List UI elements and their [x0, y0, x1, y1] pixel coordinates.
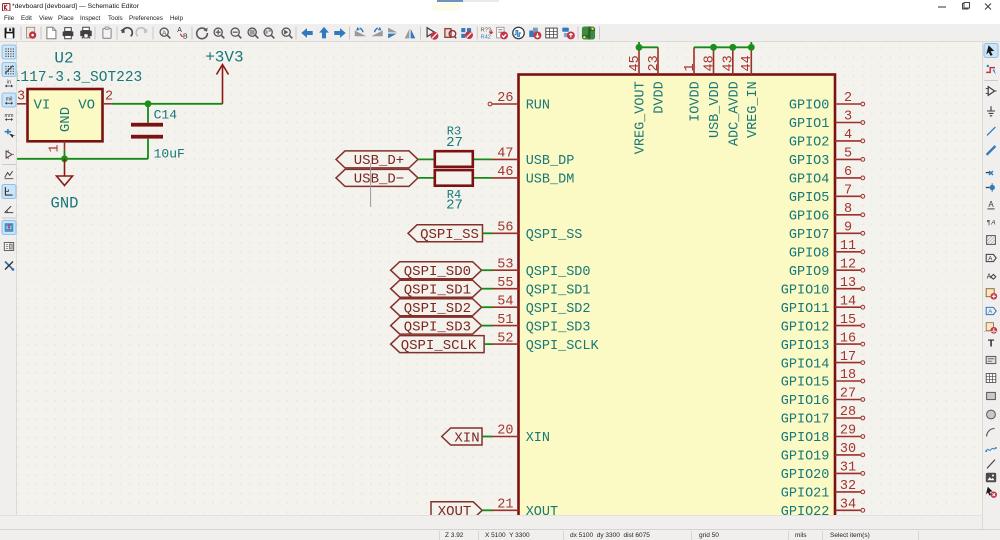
svg-text:QSPI_SD1: QSPI_SD1	[526, 283, 591, 298]
svg-text:51: 51	[497, 313, 513, 328]
svg-text:GPIO13: GPIO13	[781, 339, 830, 354]
svg-text:VREG_VOUT: VREG_VOUT	[634, 81, 649, 154]
svg-text:34: 34	[840, 498, 856, 513]
svg-text:21: 21	[497, 498, 513, 513]
svg-text:GPIO17: GPIO17	[781, 413, 830, 428]
svg-text:GPIO15: GPIO15	[781, 376, 830, 391]
svg-text:53: 53	[497, 257, 513, 272]
svg-text:VO: VO	[78, 97, 95, 113]
svg-text:QSPI_SD2: QSPI_SD2	[526, 302, 591, 317]
svg-text:13: 13	[840, 276, 856, 291]
svg-text:9: 9	[844, 221, 852, 236]
svg-text:32: 32	[840, 479, 856, 494]
svg-text:+3V3: +3V3	[205, 49, 243, 67]
svg-text:IOVDD: IOVDD	[689, 81, 704, 122]
svg-text:1: 1	[683, 63, 698, 71]
svg-text:GPIO21: GPIO21	[781, 487, 830, 502]
svg-text:8: 8	[844, 202, 852, 217]
svg-text:7: 7	[844, 184, 852, 199]
svg-text:GND: GND	[58, 107, 74, 132]
svg-text:XIN: XIN	[454, 430, 479, 446]
svg-text:52: 52	[497, 331, 513, 346]
svg-text:GPIO16: GPIO16	[781, 394, 830, 409]
svg-text:1117-3.3_SOT223: 1117-3.3_SOT223	[17, 70, 142, 86]
svg-text:29: 29	[840, 424, 856, 439]
svg-text:GPIO0: GPIO0	[789, 99, 830, 114]
svg-text:GPIO4: GPIO4	[789, 173, 830, 188]
svg-text:3: 3	[17, 90, 25, 105]
svg-text:GPIO6: GPIO6	[789, 210, 830, 225]
svg-text:VREG_IN: VREG_IN	[746, 81, 761, 138]
svg-text:GPIO5: GPIO5	[789, 191, 830, 206]
svg-text:GPIO1: GPIO1	[789, 117, 830, 132]
svg-text:QSPI_SS: QSPI_SS	[420, 227, 479, 243]
svg-text:GPIO20: GPIO20	[781, 468, 830, 483]
svg-text:27: 27	[840, 387, 856, 402]
svg-text:16: 16	[840, 331, 856, 346]
svg-text:46: 46	[497, 165, 513, 180]
svg-text:17: 17	[840, 350, 856, 365]
svg-text:14: 14	[840, 294, 856, 309]
svg-text:GPIO3: GPIO3	[789, 154, 830, 169]
svg-text:10uF: 10uF	[154, 146, 185, 161]
svg-text:2: 2	[844, 91, 852, 106]
svg-text:ADC_AVDD: ADC_AVDD	[728, 81, 743, 146]
svg-text:12: 12	[840, 257, 856, 272]
svg-text:1: 1	[48, 144, 63, 152]
svg-text:GPIO7: GPIO7	[789, 228, 830, 243]
svg-text:RUN: RUN	[526, 99, 550, 114]
svg-text:26: 26	[497, 91, 513, 106]
svg-text:43: 43	[722, 55, 737, 71]
svg-text:47: 47	[497, 147, 513, 162]
svg-text:GPIO18: GPIO18	[781, 431, 830, 446]
svg-text:GPIO9: GPIO9	[789, 265, 830, 280]
svg-text:QSPI_SCLK: QSPI_SCLK	[526, 339, 600, 354]
svg-text:U2: U2	[54, 50, 73, 68]
svg-text:GND: GND	[51, 195, 79, 213]
svg-text:11: 11	[840, 239, 856, 254]
svg-text:USB_DP: USB_DP	[526, 154, 575, 169]
svg-text:QSPI_SD0: QSPI_SD0	[404, 264, 471, 280]
svg-text:USB_D+: USB_D+	[354, 153, 404, 169]
svg-text:5: 5	[844, 147, 852, 162]
svg-text:27: 27	[446, 135, 463, 151]
svg-text:DVDD: DVDD	[653, 81, 668, 113]
svg-text:QSPI_SD1: QSPI_SD1	[404, 283, 471, 299]
svg-text:20: 20	[497, 424, 513, 439]
svg-text:2: 2	[105, 89, 113, 104]
svg-text:28: 28	[840, 405, 856, 420]
svg-text:XIN: XIN	[526, 431, 550, 446]
svg-text:GPIO10: GPIO10	[781, 283, 830, 298]
svg-text:USB_D−: USB_D−	[354, 172, 404, 188]
svg-text:QSPI_SS: QSPI_SS	[526, 228, 583, 243]
svg-text:XOUT: XOUT	[438, 504, 472, 515]
svg-text:GPIO14: GPIO14	[781, 357, 830, 372]
svg-text:USB_DM: USB_DM	[526, 173, 575, 188]
svg-text:QSPI_SD2: QSPI_SD2	[404, 301, 471, 317]
svg-text:23: 23	[647, 55, 662, 71]
svg-text:GPIO2: GPIO2	[789, 136, 830, 151]
svg-text:48: 48	[702, 55, 717, 71]
svg-text:QSPI_SCLK: QSPI_SCLK	[401, 338, 477, 354]
svg-text:54: 54	[497, 294, 513, 309]
svg-text:27: 27	[446, 198, 463, 214]
svg-text:GPIO22: GPIO22	[781, 505, 830, 515]
svg-text:QSPI_SD3: QSPI_SD3	[526, 320, 591, 335]
svg-text:VI: VI	[34, 97, 51, 113]
svg-text:44: 44	[740, 55, 755, 71]
svg-text:C14: C14	[154, 108, 178, 123]
svg-text:GPIO8: GPIO8	[789, 247, 830, 262]
svg-text:QSPI_SD0: QSPI_SD0	[526, 265, 591, 280]
svg-text:USB_VDD: USB_VDD	[708, 81, 723, 138]
svg-text:4: 4	[844, 128, 852, 143]
svg-text:QSPI_SD3: QSPI_SD3	[404, 319, 471, 335]
svg-text:GPIO11: GPIO11	[781, 302, 830, 317]
svg-text:30: 30	[840, 442, 856, 457]
svg-text:15: 15	[840, 313, 856, 328]
svg-text:GPIO12: GPIO12	[781, 320, 830, 335]
svg-text:45: 45	[628, 55, 643, 71]
svg-text:55: 55	[497, 276, 513, 291]
svg-text:3: 3	[844, 110, 852, 125]
svg-text:18: 18	[840, 368, 856, 383]
svg-text:56: 56	[497, 221, 513, 236]
svg-text:GPIO19: GPIO19	[781, 450, 830, 465]
svg-text:XOUT: XOUT	[526, 505, 558, 515]
svg-text:31: 31	[840, 461, 856, 476]
svg-text:6: 6	[844, 165, 852, 180]
